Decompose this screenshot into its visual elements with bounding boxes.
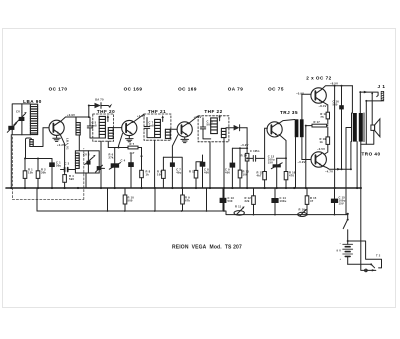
svg-text:C 3: C 3	[65, 162, 70, 166]
svg-text:C 4: C 4	[121, 159, 126, 163]
wire THF21 bottom to bus	[154, 140, 156, 188]
wire THF20 bottom to bus	[100, 141, 102, 188]
svg-text:50u: 50u	[56, 164, 61, 168]
svg-text:100: 100	[243, 173, 248, 177]
capacitor C3	[65, 168, 68, 172]
svg-text:15V: 15V	[268, 161, 273, 165]
svg-text:OA 70: OA 70	[95, 98, 104, 102]
svg-text:−0.2V: −0.2V	[241, 143, 249, 147]
transistor T1 OC170	[49, 120, 64, 135]
TRO leads bottom	[351, 142, 361, 188]
switch S1	[343, 215, 348, 241]
svg-text:1k: 1k	[320, 140, 324, 144]
wire antenna bottom	[12, 134, 30, 136]
resistor R16b	[284, 172, 288, 180]
wire box bottom left leg	[107, 141, 109, 147]
svg-text:T 2: T 2	[376, 254, 381, 258]
T5 collector to supply rail	[322, 86, 352, 89]
svg-text:500: 500	[228, 199, 233, 203]
svg-text:30k: 30k	[41, 171, 46, 175]
svg-text:470: 470	[289, 174, 294, 178]
transistor T2 OC169	[122, 120, 137, 135]
jack J1 tip wire	[360, 92, 378, 97]
THF22 primary coil	[211, 118, 218, 134]
svg-text:R 17: R 17	[314, 120, 321, 124]
capacitor C7b electrolytic	[171, 157, 173, 188]
variable capacitor CV1	[21, 104, 23, 135]
svg-text:5n: 5n	[256, 149, 260, 153]
svg-text:−8.4V: −8.4V	[319, 104, 327, 108]
svg-text:100: 100	[157, 173, 162, 177]
dashed gang link	[13, 137, 84, 200]
svg-text:OC 169: OC 169	[178, 87, 197, 92]
trimmer CV2	[87, 151, 89, 173]
capacitor C14 link	[274, 188, 276, 215]
antenna coil LBA 90 (ferrite rod winding)	[30, 104, 37, 134]
svg-text:LBA 90: LBA 90	[23, 99, 42, 104]
svg-text:500: 500	[128, 199, 133, 203]
driver transformer TRJ 35	[295, 119, 304, 137]
wire between osc coils	[78, 135, 80, 151]
resistor R10 link	[124, 188, 126, 211]
svg-text:OC 169: OC 169	[124, 87, 143, 92]
transistor T3 OC169	[177, 122, 192, 137]
coupling capacitor C10b	[247, 156, 265, 162]
wire coil to base	[33, 128, 43, 147]
oscillator coupling coil LBA 91 upper	[76, 117, 80, 135]
T1 emitter wire down	[60, 134, 65, 188]
svg-text:THF 22: THF 22	[204, 109, 222, 114]
value labels	[16, 98, 346, 212]
T4 emitter down	[277, 134, 286, 188]
oscillator coil winding	[75, 153, 79, 168]
svg-text:R 11: R 11	[189, 170, 196, 174]
wire antenna top	[12, 104, 30, 135]
svg-text:−0.9V: −0.9V	[298, 160, 306, 164]
transistor T4 OC75	[267, 122, 282, 137]
resistor R12 link	[253, 188, 255, 215]
svg-text:TRO 40: TRO 40	[361, 152, 380, 157]
capacitor C7 in can	[144, 118, 154, 138]
wire R1 R2 C1 top rail	[25, 158, 52, 160]
TRJ leads	[296, 94, 312, 188]
wire sec to T2 base	[113, 127, 121, 129]
AGC arrowhead	[108, 104, 112, 108]
ground T1	[53, 135, 61, 141]
svg-text:TRJ 35: TRJ 35	[280, 110, 298, 115]
transistor T5 OC72 upper	[311, 88, 326, 103]
capacitor C1 electrolytic	[51, 159, 53, 189]
capacitor C16 drop	[341, 86, 343, 169]
THF20 primary coil	[99, 116, 105, 138]
capacitor C10 in can	[200, 118, 210, 139]
capacitor C12 pot-style electrolytic	[276, 158, 278, 188]
junction dots bus1	[10, 187, 362, 189]
svg-text:REION VEGA Mod. TS 207: REION VEGA Mod. TS 207	[172, 245, 242, 251]
capacitor C15 link	[334, 188, 336, 215]
resistor R9a	[162, 157, 164, 188]
wire to ground bus	[10, 135, 12, 188]
resistor R15 link	[306, 188, 308, 215]
svg-text:OA 79: OA 79	[228, 87, 244, 92]
capacitor C2 trimmer	[8, 126, 14, 130]
resistor R4	[63, 175, 67, 183]
resistor R17 horizontal	[312, 124, 327, 127]
resistor R8	[140, 170, 144, 177]
resistor R7 horizontal	[128, 146, 138, 149]
svg-text:15k: 15k	[28, 171, 33, 175]
svg-text:22k: 22k	[245, 199, 250, 203]
svg-text:1n8: 1n8	[149, 124, 155, 128]
T1 collector wire	[60, 117, 89, 122]
svg-text:+1.4V: +1.4V	[137, 114, 145, 118]
resistor R1	[24, 159, 26, 189]
wire battery plus to connector	[348, 241, 382, 268]
capacitor C4 electrolytic flat	[114, 148, 116, 189]
diode OA70 AGC	[89, 106, 109, 118]
capacitor C5	[87, 117, 99, 138]
wire det output down	[246, 128, 248, 188]
supply drop wire	[334, 86, 336, 188]
IF can THF 22 dashed box	[198, 116, 229, 142]
jack switch contact	[366, 93, 381, 144]
svg-text:67k: 67k	[185, 199, 190, 203]
resistor R16a	[264, 158, 266, 188]
wire osc box to bus	[85, 173, 87, 188]
svg-text:40u: 40u	[176, 170, 181, 174]
wire THF22 bottom to bus	[209, 142, 211, 188]
junction dots bus2	[107, 210, 336, 215]
voltage annotations	[57, 82, 338, 174]
T5 emitter down	[322, 101, 328, 112]
svg-text:5k6: 5k6	[69, 177, 74, 181]
IF can THF 21 dashed box	[144, 114, 171, 140]
svg-text:R 11: R 11	[235, 205, 242, 209]
svg-text:OC 75: OC 75	[268, 87, 284, 92]
svg-text:+0.9V: +0.9V	[67, 113, 75, 117]
svg-text:2 x OC 72: 2 x OC 72	[306, 76, 331, 81]
output transformer TRO 40	[352, 113, 365, 142]
coupling coil winding	[30, 140, 33, 147]
svg-text:+: +	[340, 258, 342, 261]
T2 base bias diagonal down	[119, 134, 123, 148]
ground bus (bus1)	[6, 187, 361, 189]
resistor R9 link	[182, 188, 184, 211]
svg-text:−4.7V: −4.7V	[325, 170, 333, 174]
resistor R11a	[196, 162, 203, 188]
capacitor C8 electrolytic	[202, 155, 204, 188]
svg-text:−0.5V: −0.5V	[317, 147, 325, 151]
svg-text:THF 21: THF 21	[148, 109, 166, 114]
THF20 tuning arrow	[107, 117, 109, 122]
resistor R10a	[245, 153, 249, 161]
THF21 secondary coil	[165, 129, 170, 138]
capacitor C9 electrolytic	[231, 148, 233, 188]
svg-text:1n8: 1n8	[92, 124, 98, 128]
svg-text:400: 400	[204, 170, 209, 174]
speaker	[371, 119, 380, 137]
svg-text:400: 400	[225, 170, 230, 174]
oscillator box LBA 91	[75, 151, 99, 173]
svg-text:−8.5V: −8.5V	[330, 82, 338, 86]
svg-text:R 14: R 14	[241, 154, 248, 158]
THF21 tuning arrow	[162, 117, 164, 122]
wire TRO bottom to speaker	[361, 130, 374, 144]
bus link x107.5	[107, 188, 109, 211]
TRO leads top	[352, 86, 360, 113]
svg-text:−0.9V: −0.9V	[296, 91, 304, 95]
ground T2	[126, 136, 134, 142]
capacitor C6 electrolytic	[130, 154, 132, 188]
bus link x155	[154, 188, 156, 211]
resistor R19	[324, 127, 328, 155]
resistor R18	[326, 112, 329, 119]
svg-text:OC 170: OC 170	[49, 87, 68, 92]
svg-text:CV 1: CV 1	[16, 110, 23, 114]
bias rail	[163, 157, 182, 188]
svg-text:+1.3V: +1.3V	[194, 115, 202, 119]
junction dots misc	[24, 85, 367, 242]
resistor R13a	[239, 148, 241, 188]
svg-text:27k: 27k	[109, 156, 114, 160]
svg-text:500: 500	[333, 103, 338, 107]
T4 collector diagonal to TRJ	[278, 120, 295, 124]
type labels	[23, 76, 385, 157]
svg-text:9 V: 9 V	[337, 249, 342, 253]
trimmer C right	[97, 166, 102, 170]
svg-text:4k7: 4k7	[130, 151, 135, 155]
THF22 secondary coil	[221, 128, 226, 137]
svg-text:100u: 100u	[280, 199, 287, 203]
svg-text:15V: 15V	[339, 202, 344, 206]
resistor R2	[37, 159, 39, 189]
bus link x206.5	[206, 188, 208, 211]
wire sec to T3 base	[170, 128, 177, 130]
IF can THF 20 dashed box	[93, 114, 114, 141]
svg-text:+0.25V: +0.25V	[57, 143, 67, 147]
bus link left	[36, 188, 38, 211]
transistor T6 OC72 lower	[311, 152, 326, 167]
AGC arrow on R8 column	[140, 154, 142, 157]
wire bus1 to connector	[361, 188, 376, 270]
THF20 secondary coil	[108, 128, 113, 139]
svg-text:J 1: J 1	[378, 84, 386, 89]
wire base T1	[43, 127, 49, 129]
T2 collector diagonal to THF21	[133, 114, 144, 122]
lower supply bus (bus2)	[37, 211, 348, 215]
svg-text:THF 20: THF 20	[97, 109, 115, 114]
wire battery minus to contact	[348, 263, 372, 265]
wire secondary bottom to bus	[223, 138, 225, 211]
svg-text:R 16: R 16	[299, 208, 306, 212]
svg-text:CV 2: CV 2	[83, 152, 90, 156]
battery 9V	[343, 241, 353, 264]
svg-text:−: −	[340, 243, 342, 246]
potentiometer P1 volume	[234, 206, 245, 215]
svg-text:R 7: R 7	[130, 142, 135, 146]
wire R17 left leg to bus	[305, 126, 307, 188]
svg-text:1k: 1k	[146, 173, 150, 177]
T3 base bias diagonal down	[172, 135, 178, 157]
detector diode OA79	[226, 127, 247, 129]
THF22 tuning arrow	[219, 116, 221, 121]
ground T3	[181, 137, 189, 143]
T6 emitter to right	[322, 166, 351, 170]
wire to T4 base	[265, 128, 268, 158]
svg-text:4k7: 4k7	[257, 174, 262, 178]
potentiometer P2	[298, 209, 307, 216]
connector T2 contact lever	[371, 264, 374, 267]
svg-text:75: 75	[320, 115, 324, 119]
TRO centre tap	[346, 128, 352, 215]
svg-text:500: 500	[207, 123, 212, 127]
THF21 primary coil	[155, 119, 161, 137]
capacitor C13 link	[222, 188, 224, 211]
svg-text:47: 47	[310, 199, 314, 203]
wire rail y148.3	[232, 147, 247, 149]
coupling coil hook	[26, 138, 32, 159]
wire rail y147.5	[108, 147, 128, 149]
T3 collector diagonal to THF22	[188, 116, 198, 124]
jack J1 sleeve	[381, 91, 384, 101]
